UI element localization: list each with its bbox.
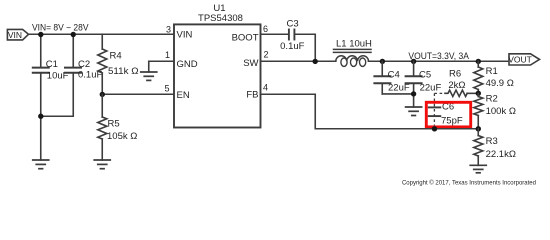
- svg-text:R3: R3: [486, 136, 498, 147]
- junction dot SW/C3: [313, 59, 318, 64]
- svg-text:L1 10uH: L1 10uH: [336, 38, 372, 49]
- svg-text:75pF: 75pF: [441, 116, 463, 127]
- svg-text:GND: GND: [177, 59, 198, 70]
- junction dot C2 top: [71, 32, 76, 37]
- pin 4 number: [263, 82, 268, 92]
- svg-text:5: 5: [164, 83, 169, 93]
- ground (R5): [94, 160, 110, 169]
- junction dot EN/R4/R5: [100, 92, 105, 97]
- svg-text:22.1kΩ: 22.1kΩ: [486, 149, 516, 160]
- node VIN=8V~28V label: [32, 22, 89, 33]
- resistor R3: [474, 129, 516, 166]
- junction dot C6/FB: [432, 126, 437, 131]
- svg-text:VIN= 8V ~ 28V: VIN= 8V ~ 28V: [32, 22, 89, 33]
- svg-text:FB: FB: [246, 89, 258, 100]
- svg-text:C4: C4: [388, 70, 400, 81]
- pin 3 number: [166, 24, 171, 34]
- copyright note: [402, 179, 536, 186]
- op-amp U1 IC box TPS54308: [174, 3, 261, 128]
- junction dot C1 top: [38, 32, 43, 37]
- svg-text:R5: R5: [108, 119, 120, 130]
- svg-text:VOUT: VOUT: [508, 55, 532, 65]
- svg-text:C3: C3: [287, 18, 299, 29]
- wire: EN net: [102, 93, 174, 95]
- wire: BOOT to C3: [261, 33, 289, 35]
- junction dot R1/R6/R2: [476, 91, 481, 96]
- junction dot L1/C4: [380, 59, 385, 64]
- highlight box around C6: [426, 102, 470, 127]
- svg-text:R4: R4: [110, 51, 122, 62]
- svg-text:2kΩ: 2kΩ: [448, 80, 465, 91]
- pin 6 number: [263, 24, 268, 34]
- capacitor C4: [374, 61, 409, 94]
- svg-text:TPS54308: TPS54308: [198, 13, 243, 24]
- VIN port flag: [7, 29, 28, 40]
- wire (dashed): R6/C6 optional net: [434, 93, 445, 128]
- pin 2 number: [264, 49, 269, 59]
- wire: GND pin to ground: [149, 61, 174, 72]
- svg-text:22uF: 22uF: [388, 83, 410, 94]
- ground (C4/C5): [406, 107, 422, 116]
- svg-text:BOOT: BOOT: [232, 32, 259, 43]
- resistor R5: [98, 94, 138, 160]
- wire: SW pin to L1: [261, 60, 336, 62]
- capacitor C6: [429, 102, 463, 127]
- wire: VIN input rail: [29, 33, 175, 35]
- svg-text:Copyright © 2017, Texas Instru: Copyright © 2017, Texas Instruments Inco…: [402, 179, 536, 186]
- svg-text:C2: C2: [78, 59, 90, 70]
- node VOUT=3.3V,3A label: [408, 51, 469, 62]
- svg-text:2: 2: [264, 49, 269, 59]
- pin 1 number: [165, 50, 170, 60]
- VOUT port flag: [508, 54, 539, 65]
- junction dot C5 top: [411, 59, 416, 64]
- wire: C4/C5 bottom rail: [382, 94, 413, 107]
- resistor R6: [445, 69, 467, 97]
- resistor R2: [474, 93, 516, 128]
- capacitor C2: [41, 34, 103, 116]
- ground (R3): [470, 165, 486, 173]
- wire: R6 to R1/R2 junction: [467, 92, 478, 94]
- wire: VOUT rail: [369, 60, 510, 62]
- svg-text:VOUT=3.3V, 3A: VOUT=3.3V, 3A: [408, 51, 469, 62]
- capacitor C1: [33, 34, 69, 160]
- wire: FB net: [261, 94, 479, 129]
- svg-text:C1: C1: [46, 59, 58, 70]
- capacitor C3: [280, 18, 304, 52]
- junction dot R1 top: [476, 59, 481, 64]
- svg-text:4: 4: [263, 82, 268, 92]
- wire: C3 to SW node: [295, 34, 315, 61]
- svg-text:100k Ω: 100k Ω: [486, 106, 516, 117]
- svg-text:49.9 Ω: 49.9 Ω: [486, 78, 514, 89]
- svg-text:VIN: VIN: [177, 30, 193, 41]
- svg-text:22uF: 22uF: [420, 83, 442, 94]
- svg-text:511k Ω: 511k Ω: [108, 66, 139, 77]
- svg-text:105k Ω: 105k Ω: [107, 131, 137, 142]
- inductor L1: [334, 38, 373, 66]
- junction dot C1/C2 bottom: [38, 114, 43, 119]
- junction dot C4/C5 gnd: [411, 91, 416, 96]
- svg-text:SW: SW: [243, 58, 258, 69]
- svg-text:C5: C5: [419, 70, 431, 81]
- junction dot R2/R3/FB: [476, 126, 481, 131]
- svg-text:3: 3: [166, 24, 171, 34]
- svg-text:0.1uF: 0.1uF: [280, 41, 304, 52]
- svg-text:1: 1: [165, 50, 170, 60]
- svg-text:EN: EN: [177, 90, 190, 101]
- pin 5 number: [164, 83, 169, 93]
- resistor R1: [474, 61, 514, 93]
- svg-text:R6: R6: [449, 69, 461, 80]
- ground (GND pin): [141, 72, 157, 80]
- svg-text:VIN: VIN: [8, 30, 22, 40]
- svg-text:R1: R1: [486, 66, 498, 77]
- svg-text:6: 6: [263, 24, 268, 34]
- svg-text:R2: R2: [486, 94, 498, 105]
- capacitor C5: [406, 61, 442, 94]
- ground (C1/C2): [33, 160, 49, 169]
- resistor R4: [98, 34, 139, 94]
